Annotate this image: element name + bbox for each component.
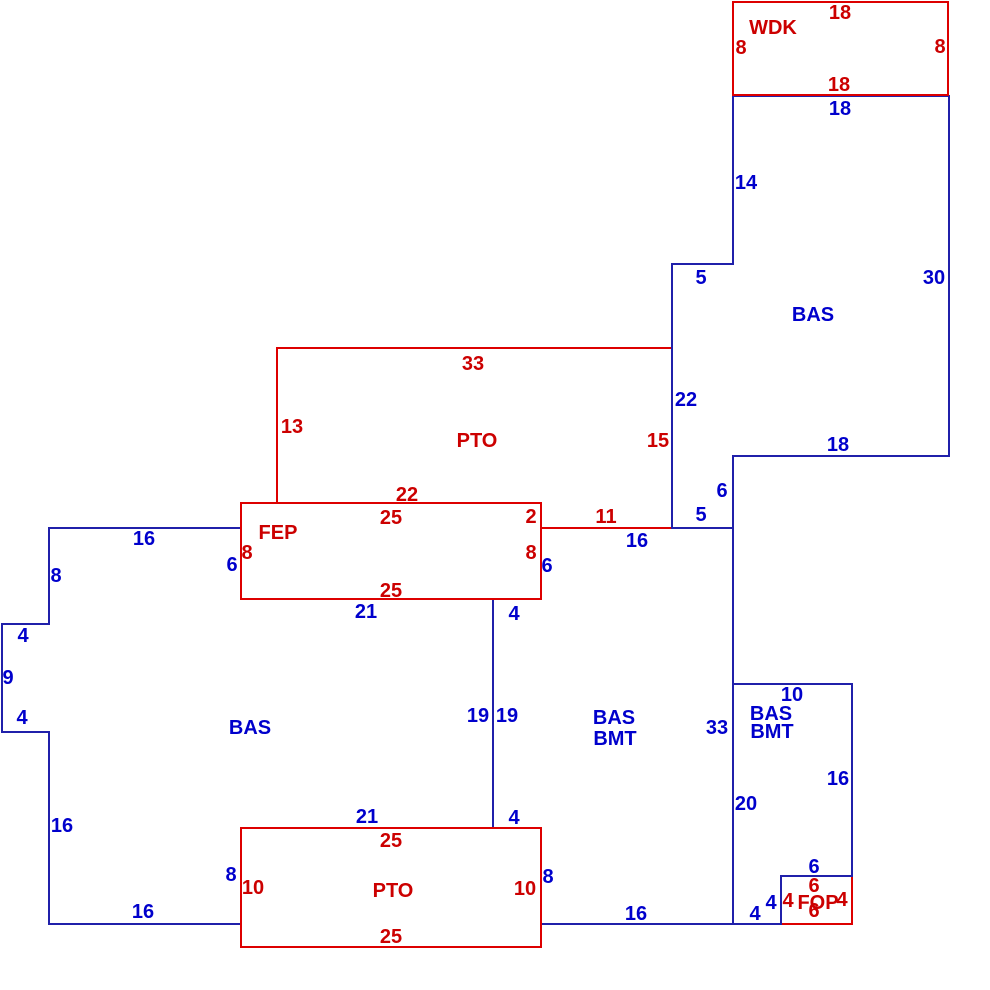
room FEP outline [241, 503, 541, 599]
svg-text:4: 4 [782, 890, 794, 912]
svg-text:8: 8 [241, 542, 252, 564]
svg-text:6: 6 [226, 554, 237, 576]
svg-text:25: 25 [380, 507, 402, 529]
room PTO upper outline [277, 348, 672, 528]
svg-text:14: 14 [735, 172, 758, 194]
svg-text:16: 16 [51, 815, 73, 837]
svg-text:10: 10 [242, 877, 264, 899]
svg-text:8: 8 [735, 37, 746, 59]
svg-text:8: 8 [225, 864, 236, 886]
room BAS BMT right outline [733, 684, 852, 924]
svg-text:19: 19 [496, 705, 518, 727]
svg-text:33: 33 [706, 717, 728, 739]
svg-text:18: 18 [829, 2, 851, 24]
svg-text:8: 8 [542, 866, 553, 888]
svg-text:2: 2 [525, 506, 536, 528]
room BAS BMT middle outline [493, 528, 733, 924]
svg-text:16: 16 [625, 903, 647, 925]
svg-text:22: 22 [675, 389, 697, 411]
svg-text:6: 6 [716, 480, 727, 502]
svg-text:15: 15 [647, 430, 669, 452]
svg-text:16: 16 [133, 528, 155, 550]
svg-text:21: 21 [355, 601, 377, 623]
svg-text:4: 4 [749, 903, 761, 925]
svg-text:4: 4 [765, 892, 777, 914]
svg-text:4: 4 [508, 807, 520, 829]
svg-text:10: 10 [514, 878, 536, 900]
svg-text:25: 25 [380, 580, 402, 602]
svg-text:6: 6 [808, 900, 819, 922]
svg-text:4: 4 [836, 889, 848, 911]
room PTO lower outline [241, 828, 541, 947]
svg-text:5: 5 [695, 267, 706, 289]
svg-text:BAS: BAS [229, 717, 271, 739]
svg-text:16: 16 [626, 530, 648, 552]
svg-text:21: 21 [356, 806, 378, 828]
svg-text:25: 25 [380, 830, 402, 852]
svg-text:30: 30 [923, 267, 945, 289]
svg-text:18: 18 [827, 434, 849, 456]
svg-text:PTO: PTO [457, 430, 498, 452]
svg-text:8: 8 [50, 565, 61, 587]
room FOP outline [781, 876, 852, 924]
svg-text:25: 25 [380, 926, 402, 948]
svg-text:33: 33 [462, 353, 484, 375]
svg-text:4: 4 [508, 603, 520, 625]
svg-text:WDK: WDK [749, 17, 797, 39]
svg-text:11: 11 [595, 506, 616, 528]
svg-text:19: 19 [467, 705, 489, 727]
svg-text:8: 8 [934, 36, 945, 58]
svg-text:22: 22 [396, 484, 418, 506]
svg-text:9: 9 [2, 667, 13, 689]
svg-text:FEP: FEP [259, 522, 298, 544]
svg-text:4: 4 [16, 707, 28, 729]
svg-text:16: 16 [827, 768, 849, 790]
svg-text:6: 6 [541, 555, 552, 577]
svg-text:18: 18 [829, 98, 851, 120]
svg-text:10: 10 [781, 684, 803, 706]
svg-text:18: 18 [828, 74, 850, 96]
svg-text:BMT: BMT [750, 721, 793, 743]
svg-text:8: 8 [525, 542, 536, 564]
room BAS left outline [2, 528, 493, 924]
svg-text:20: 20 [735, 793, 757, 815]
svg-text:BAS: BAS [593, 707, 635, 729]
svg-text:5: 5 [695, 504, 706, 526]
svg-text:13: 13 [281, 416, 303, 438]
room BAS top-right outline [672, 96, 949, 528]
svg-text:BAS: BAS [792, 304, 834, 326]
svg-text:16: 16 [132, 901, 154, 923]
svg-text:PTO: PTO [373, 880, 414, 902]
room WDK outline [733, 2, 948, 95]
svg-text:BMT: BMT [593, 728, 636, 750]
svg-text:4: 4 [17, 625, 29, 647]
